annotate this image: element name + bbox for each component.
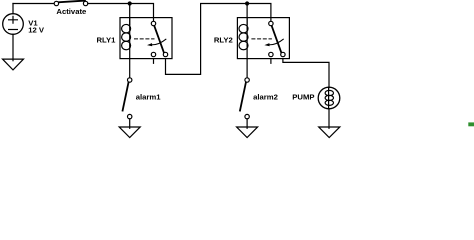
lamp/motor PUMP — [318, 87, 340, 109]
svg-text:RLY2: RLY2 — [214, 35, 233, 44]
wire: alarm2 to ground — [246, 119, 248, 129]
wire: RLY1 NC stub — [153, 59, 155, 64]
label 12 V — [28, 26, 45, 35]
svg-text:12 V: 12 V — [28, 26, 45, 35]
ground (alarm2) — [237, 127, 258, 138]
wire: RLY2 coil bottom to alarm2 — [246, 59, 248, 78]
label alarm2 — [253, 92, 278, 101]
svg-text:RLY1: RLY1 — [96, 35, 116, 44]
relay RLY1 — [120, 18, 172, 59]
svg-text:Activate: Activate — [56, 7, 87, 16]
label Activate — [56, 7, 87, 16]
green marker (cropped UI element) — [468, 122, 474, 126]
wire: PUMP to ground — [328, 109, 330, 129]
actuation arrow — [269, 39, 283, 45]
wire: top rail from V1 to Activate switch — [13, 3, 54, 5]
switch Activate — [54, 1, 88, 6]
actuation arrow — [152, 39, 166, 45]
wire: RLY1 coil feed down — [129, 4, 131, 25]
wire: RLY1 NO to RLY2 feed rail — [166, 4, 271, 75]
relay RLY2 — [237, 18, 289, 59]
dashed actuation link — [135, 38, 155, 40]
ground (PUMP) — [319, 127, 340, 138]
wire: alarm1 to ground — [129, 119, 131, 129]
ground (V1) — [3, 59, 24, 70]
svg-text:PUMP: PUMP — [292, 93, 314, 102]
wire: RLY1 coil bottom to alarm1 — [129, 59, 131, 78]
pin NC — [151, 52, 155, 56]
blade common to NO — [154, 26, 164, 53]
coil — [129, 18, 131, 59]
switch alarm1 — [123, 78, 132, 119]
label RLY2 — [214, 35, 233, 44]
node junction at RLY1 coil feed — [128, 1, 132, 5]
pin common — [151, 21, 155, 25]
pin NC — [269, 52, 273, 56]
switch alarm2 — [240, 78, 249, 119]
pin common — [269, 21, 273, 25]
label RLY1 — [96, 35, 116, 44]
voltage source V1 — [3, 14, 24, 35]
pin NO — [163, 52, 167, 56]
label alarm1 — [136, 92, 162, 101]
svg-text:alarm2: alarm2 — [253, 92, 278, 101]
svg-text:alarm1: alarm1 — [136, 92, 162, 101]
wire: rail from Activate to RLY1 common pin — [88, 4, 154, 22]
pin NO — [281, 52, 285, 56]
blade common to NO — [272, 26, 282, 53]
wire: RLY2 NO to PUMP — [283, 59, 329, 88]
wire: RLY2 coil feed down — [246, 4, 248, 25]
ground (alarm1) — [119, 127, 140, 138]
label V1 — [28, 19, 38, 28]
wire: RLY2 NC stub — [270, 59, 272, 64]
wire: V1 top stub — [12, 4, 14, 14]
wire: V1 bottom to ground — [12, 34, 14, 60]
label PUMP — [292, 93, 314, 102]
coil — [246, 18, 248, 59]
node junction at RLY2 coil feed — [245, 1, 249, 5]
dashed actuation link — [252, 38, 272, 40]
